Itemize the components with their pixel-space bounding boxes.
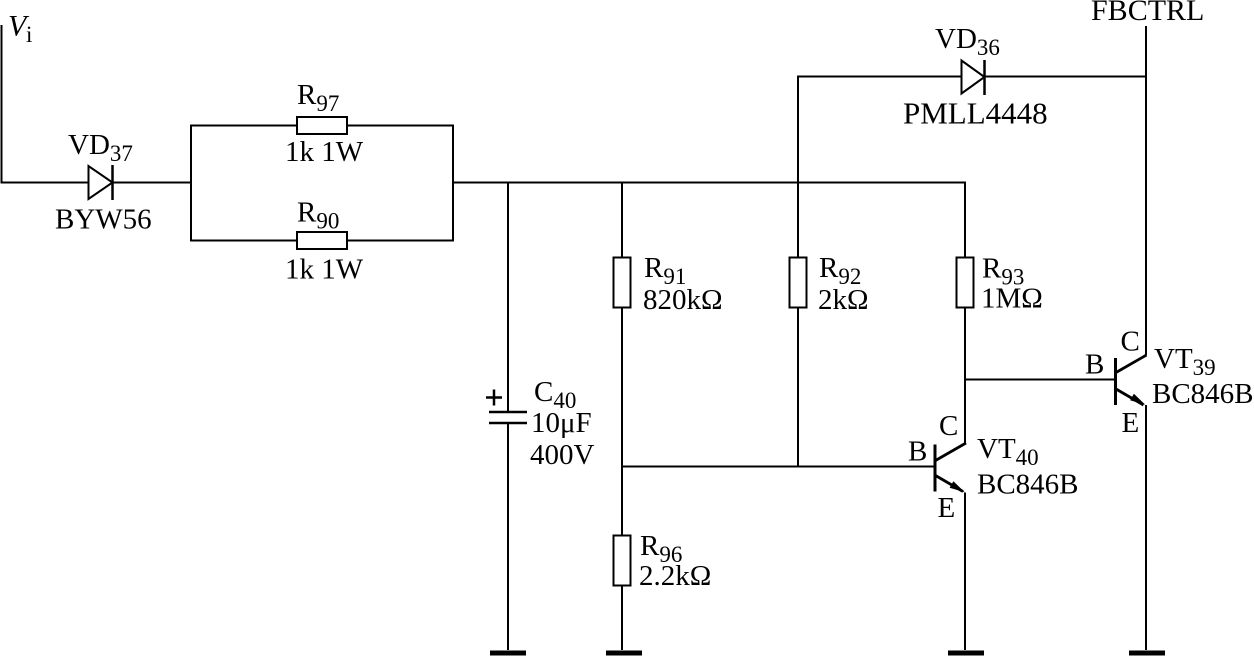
polarity plus sign	[486, 390, 502, 406]
svg-text:PMLL4448: PMLL4448	[903, 96, 1048, 131]
ground VT40	[948, 651, 984, 656]
wire Vi to VD37 anode	[1, 182, 90, 184]
wire FBCTRL vertical	[1145, 26, 1147, 355]
wire box right edge	[452, 125, 454, 242]
resistor R92	[790, 258, 807, 308]
wire base line to VT40	[622, 466, 934, 468]
svg-text:1k 1W: 1k 1W	[285, 136, 364, 168]
wire R93 branch top	[964, 182, 966, 259]
diode VD36	[962, 60, 985, 95]
wire junction to R96	[621, 467, 623, 537]
wire C40 to ground	[507, 423, 509, 650]
wire VT39 emitter to ground	[1145, 405, 1147, 650]
label R97	[297, 79, 339, 116]
label C VT40	[939, 410, 958, 442]
label E VT40	[938, 492, 956, 524]
wire VD36 cathode to FBCTRL line	[985, 76, 1148, 78]
wire R96 to ground	[621, 586, 623, 651]
node Vi label	[8, 10, 32, 48]
resistor R97	[297, 117, 347, 134]
resistor R91	[614, 258, 631, 308]
wire Vi vertical	[1, 25, 3, 184]
wire VD37 to box	[113, 182, 193, 184]
label 2k	[818, 284, 869, 316]
label 820k	[643, 284, 723, 316]
wire VT39 base wire	[964, 379, 1116, 381]
ground C40	[490, 651, 526, 656]
label 400V	[530, 439, 595, 471]
label BYW56	[55, 204, 152, 236]
svg-text:BC846B: BC846B	[1152, 378, 1254, 410]
svg-text:C: C	[939, 410, 958, 442]
svg-text:BC846B: BC846B	[977, 469, 1079, 501]
wire C40 branch top	[507, 183, 509, 413]
label R91	[644, 252, 686, 289]
wire R92 vertical upper	[797, 77, 799, 259]
svg-text:B: B	[908, 436, 927, 468]
svg-text:i: i	[26, 22, 32, 47]
wire box bottom edge left	[191, 240, 298, 242]
label R96	[640, 530, 682, 567]
wire main bus	[452, 182, 966, 184]
svg-text:400V: 400V	[530, 439, 595, 471]
label 2.2k	[639, 560, 711, 592]
diode VD37	[89, 165, 113, 200]
label R92	[819, 252, 861, 289]
wire R91 bottom to junction	[621, 308, 623, 468]
wire R93 bottom to VT40 collector	[964, 308, 966, 445]
label 1k 1W top	[285, 136, 364, 168]
svg-text:C: C	[1121, 326, 1140, 358]
label C40	[534, 376, 576, 413]
wire box top edge right	[347, 125, 453, 127]
svg-text:B: B	[1085, 349, 1104, 381]
svg-text:1MΩ: 1MΩ	[981, 283, 1043, 315]
label 1M	[981, 283, 1043, 315]
svg-text:E: E	[938, 492, 956, 524]
resistor R93	[957, 258, 974, 308]
svg-text:FBCTRL: FBCTRL	[1091, 0, 1204, 27]
wire box bottom edge right	[347, 240, 453, 242]
wire R92 bottom	[797, 308, 799, 468]
label BC846B VT40	[977, 469, 1079, 501]
label BC846B VT39	[1152, 378, 1254, 410]
svg-text:2kΩ: 2kΩ	[818, 284, 869, 316]
svg-text:10μF: 10μF	[531, 407, 592, 439]
ground R96	[606, 651, 642, 656]
label R93	[982, 253, 1024, 290]
wire R91 branch top	[621, 183, 623, 259]
svg-text:820kΩ: 820kΩ	[643, 284, 723, 316]
label C VT39	[1121, 326, 1140, 358]
resistor R96	[614, 536, 631, 586]
label VD36	[935, 23, 1000, 60]
label FBCTRL	[1091, 0, 1204, 27]
svg-text:1k 1W: 1k 1W	[285, 254, 364, 286]
label B VT39	[1085, 349, 1104, 381]
label 1k 1W bottom	[285, 254, 364, 286]
svg-text:BYW56: BYW56	[55, 204, 152, 236]
wire box top edge left	[191, 125, 298, 127]
resistor R90	[297, 232, 347, 249]
wire VT40 emitter to ground	[964, 493, 966, 651]
label E VT39	[1122, 407, 1140, 439]
label VT40	[977, 433, 1039, 470]
label 10uF	[531, 407, 592, 439]
transistor VT40	[935, 443, 966, 492]
label VD37	[68, 129, 133, 166]
svg-text:2.2kΩ: 2.2kΩ	[639, 560, 711, 592]
label B VT40	[908, 436, 927, 468]
svg-text:E: E	[1122, 407, 1140, 439]
wire VD36 anode side	[797, 76, 963, 78]
transistor VT39	[1116, 355, 1147, 405]
capacitor C40	[489, 412, 527, 423]
wire box left edge	[190, 125, 192, 242]
ground VT39	[1129, 651, 1165, 656]
label R90	[297, 197, 339, 234]
label VT39	[1154, 343, 1216, 380]
label PMLL4448	[903, 96, 1048, 131]
